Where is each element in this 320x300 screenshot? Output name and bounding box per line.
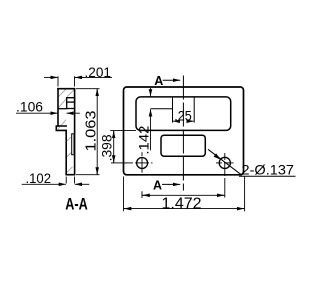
svg-text:A-A: A-A bbox=[65, 194, 88, 213]
section arrow bottom bbox=[162, 183, 180, 185]
svg-text:1.472: 1.472 bbox=[162, 195, 202, 212]
leader arrowhead bbox=[214, 153, 221, 159]
inner pocket outline bbox=[136, 97, 231, 130]
dimension .142 bbox=[150, 88, 152, 150]
svg-text:1.063: 1.063 bbox=[83, 111, 100, 152]
stepped hole in section bbox=[58, 98, 75, 109]
outer plate outline bbox=[124, 87, 244, 175]
dimension .102 bbox=[22, 177, 90, 185]
pocket step edge bbox=[151, 108, 173, 110]
hole H2 right bbox=[219, 157, 230, 168]
section cutting line A-A bbox=[182, 76, 184, 191]
notch edges / .25 extension lines bbox=[173, 97, 195, 123]
hole H1 left bbox=[137, 158, 148, 169]
dimension .201 bbox=[44, 76, 112, 86]
svg-text:.102: .102 bbox=[26, 171, 52, 186]
svg-text:A: A bbox=[153, 178, 162, 192]
svg-text:.106: .106 bbox=[16, 99, 43, 115]
hole H2 centerlines bbox=[216, 153, 234, 198]
svg-text:2-Ø.137: 2-Ø.137 bbox=[242, 161, 295, 177]
svg-text:.398: .398 bbox=[100, 134, 115, 161]
dimension 1.063 bbox=[76, 89, 100, 175]
slot in lower body bbox=[72, 134, 74, 155]
slot feature bbox=[161, 135, 205, 156]
hatch lines bbox=[58, 89, 74, 173]
label 2-Ø.137 with leader bbox=[208, 149, 296, 176]
dimension .106 bbox=[16, 112, 80, 114]
section arrow top bbox=[163, 79, 181, 81]
left view outline bbox=[56, 89, 74, 175]
svg-text:.201: .201 bbox=[85, 65, 112, 80]
dimension 1.472 bbox=[124, 177, 245, 212]
dimension .25 bbox=[173, 120, 194, 122]
dimension .398 bbox=[110, 130, 136, 163]
svg-text:.142: .142 bbox=[136, 125, 152, 154]
hole H1 centerlines bbox=[126, 152, 153, 198]
hole spacing dimension bbox=[142, 194, 225, 196]
svg-text:A: A bbox=[154, 74, 163, 88]
